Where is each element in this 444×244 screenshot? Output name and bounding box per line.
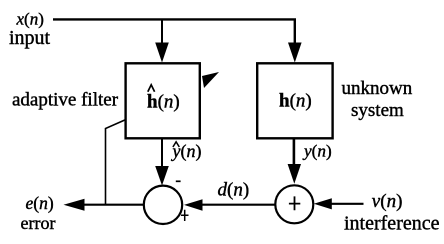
svg-text:x(n): x(n) [16,9,44,28]
svg-text:adaptive filter: adaptive filter [12,90,119,111]
svg-text:error: error [21,213,56,233]
svg-text:h(n): h(n) [279,90,312,111]
wire feedback from e(n) up to adaptive filter [106,120,125,205]
arrowhead e(n) [64,199,85,211]
arrowhead v(n) into right junction [314,198,332,209]
svg-text:e(n): e(n) [26,193,54,213]
wire unknown system output down [293,139,296,166]
wire e(n) output line [84,204,143,206]
svg-text:h(n): h(n) [147,91,180,112]
arrowhead into adaptive filter [155,43,169,63]
wire x(n) horizontal top line with corner down to unknown system [53,18,295,43]
arrowhead into left summing junction [155,166,169,186]
summing junction left circle [144,186,182,224]
svg-text:y(n): y(n) [302,142,332,161]
plus sign at left junction [181,210,189,221]
plus sign inside right junction [289,196,300,210]
svg-text:d(n): d(n) [218,180,250,201]
wire v(n) interference line [332,203,364,205]
svg-text:input: input [9,27,51,49]
block adaptive filter box [126,63,200,138]
minus sign at left junction [176,180,181,182]
svg-text:interference: interference [344,212,440,234]
svg-text:v(n): v(n) [372,191,403,212]
wire branch vertical to adaptive filter [161,19,163,43]
summing junction right circle [275,185,313,223]
svg-text:system: system [351,100,404,121]
arrowhead into right summing junction [288,164,301,184]
arrowhead into unknown system [288,43,302,63]
block unknown system box [257,63,332,138]
label hat over h(n) [148,85,155,92]
arrowhead d(n) into left junction [184,199,203,211]
wire d(n) line between junctions [202,204,275,206]
svg-text:unknown: unknown [342,78,413,99]
wire adaptive filter output down [161,139,163,168]
label hat over y(n) [173,142,179,147]
adaptation arrowhead on adaptive filter corner [202,72,219,88]
svg-text:y(n): y(n) [171,141,202,162]
